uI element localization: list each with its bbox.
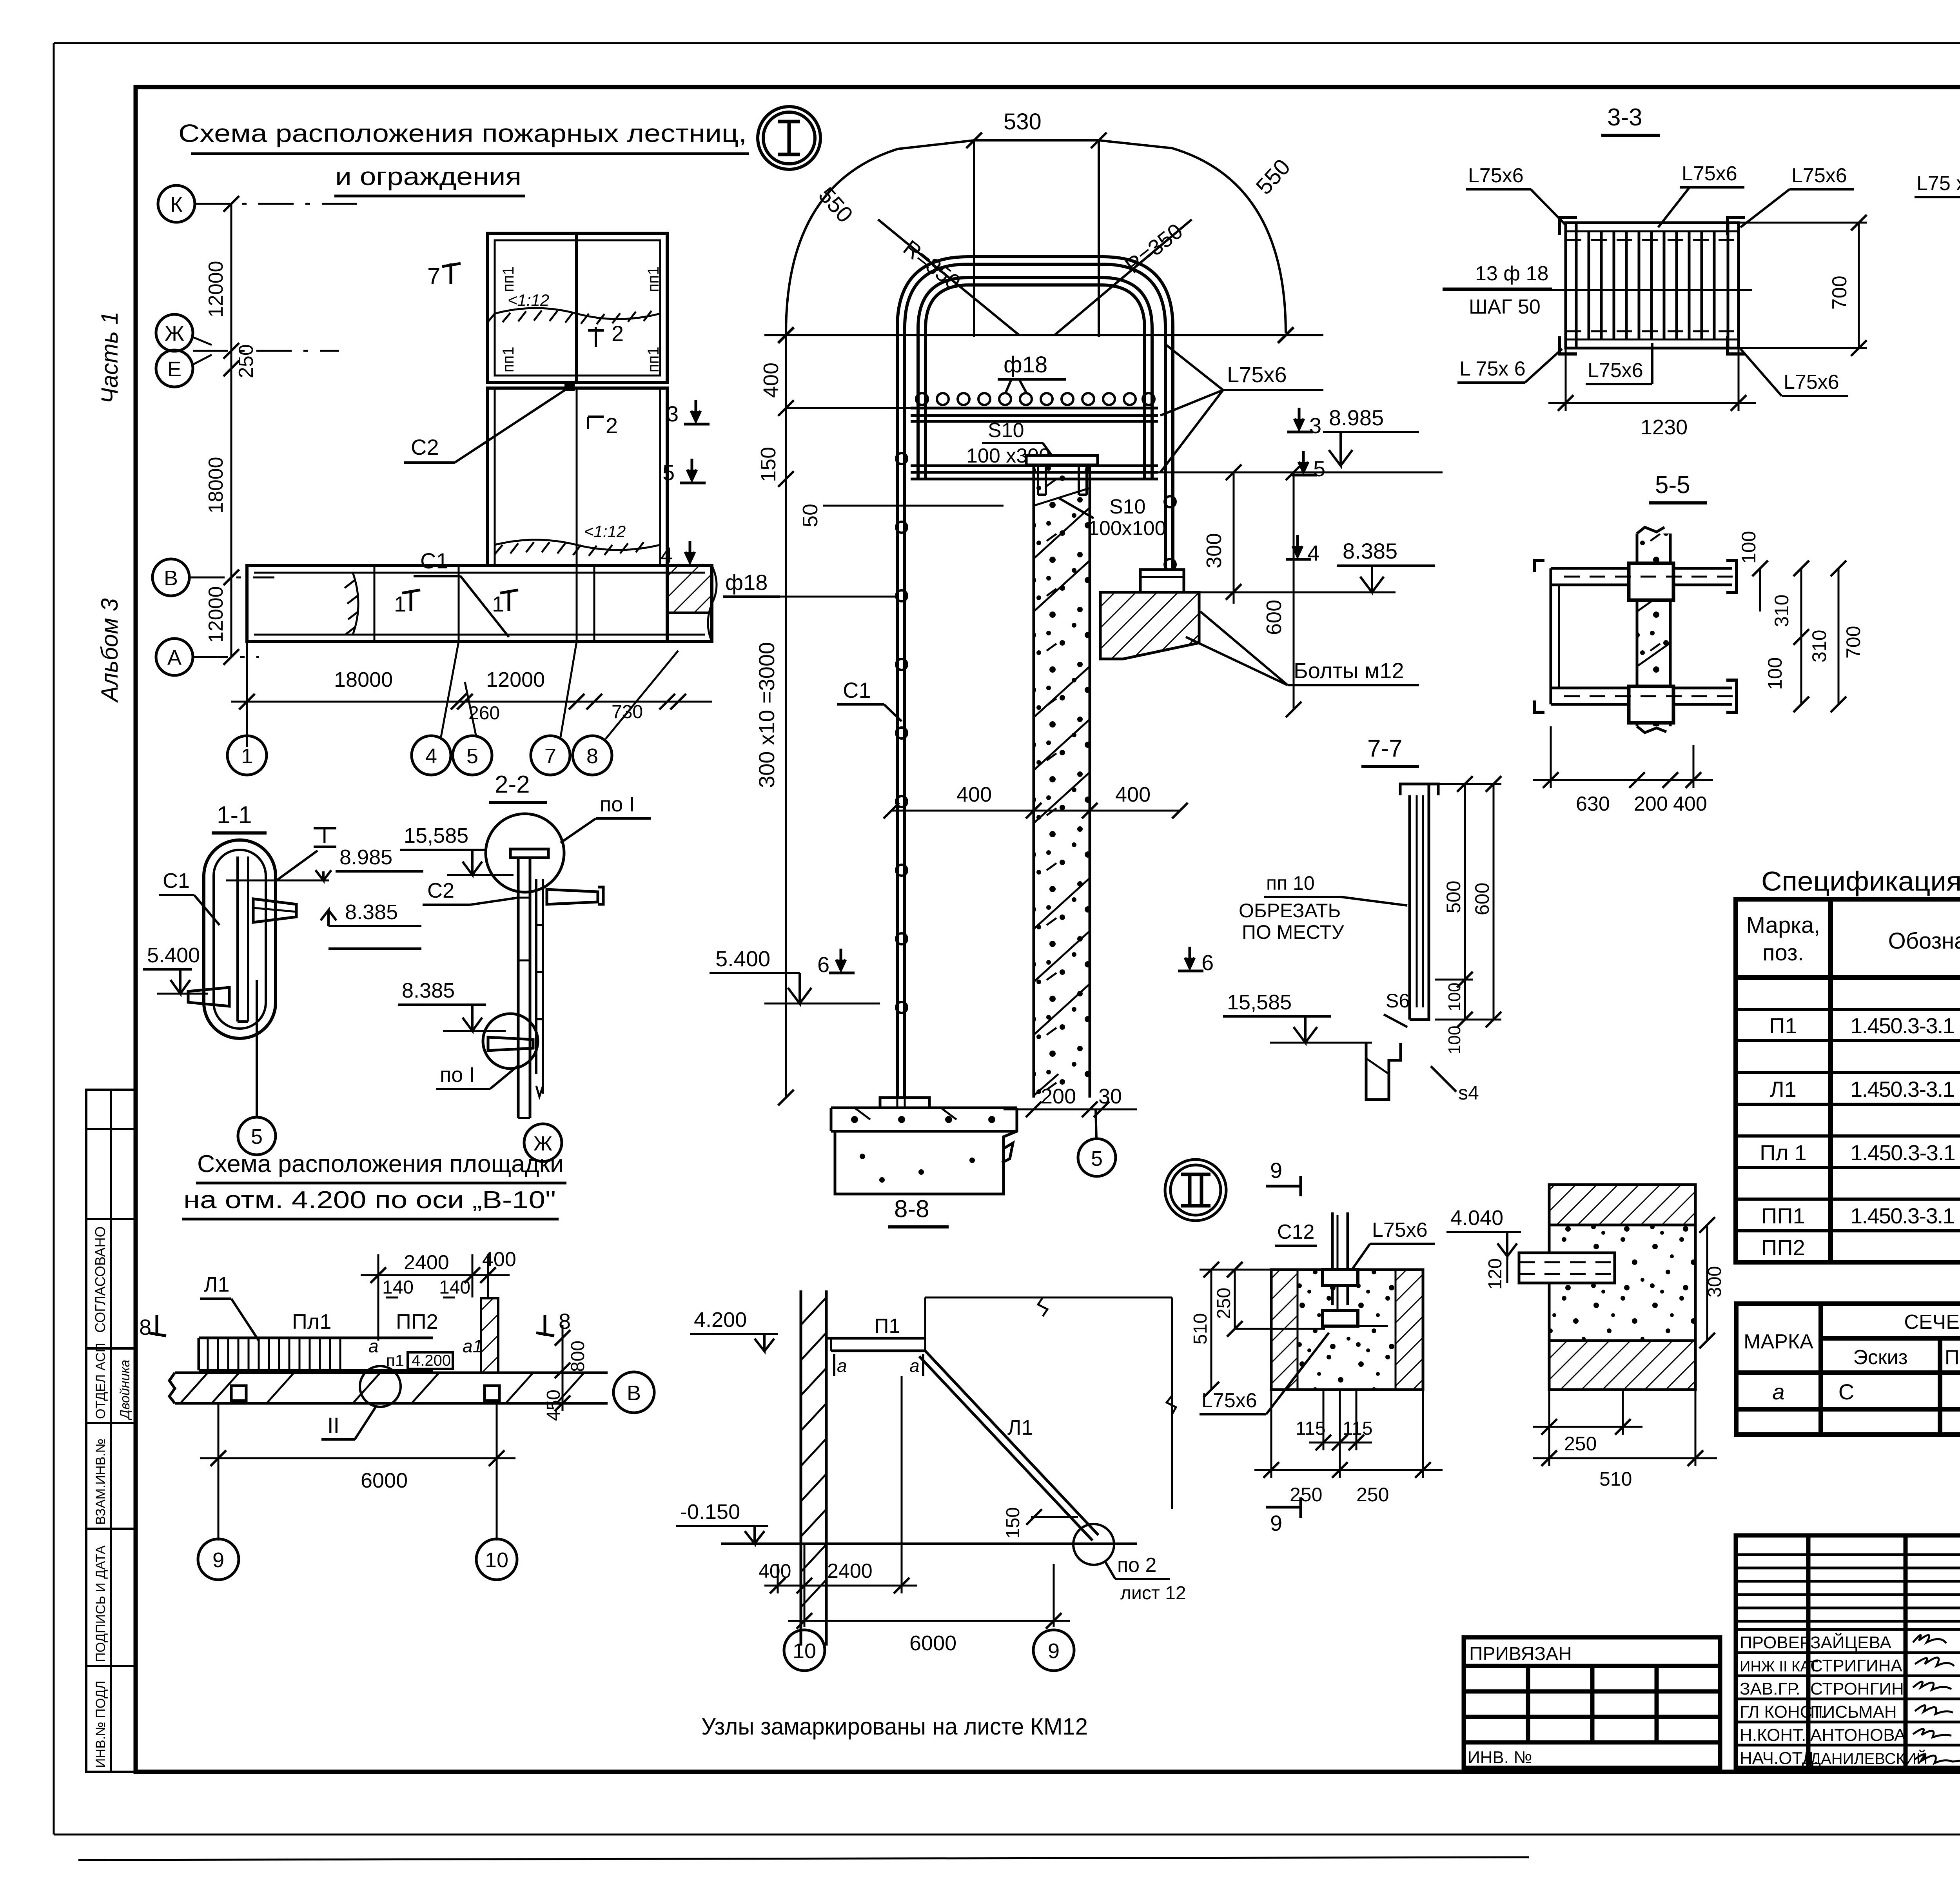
svg-text:8: 8 [139, 1315, 151, 1339]
svg-text:ЗАВ.ГР.: ЗАВ.ГР. [1740, 1679, 1800, 1698]
svg-text:А: А [167, 646, 181, 670]
svg-text:8.385: 8.385 [402, 979, 455, 1002]
svg-text:Марка,: Марка, [1746, 913, 1820, 938]
svg-text:Ж: Ж [165, 322, 184, 345]
wall strip vertical [1637, 533, 1670, 726]
svg-text:600: 600 [1262, 600, 1286, 635]
bracket right [547, 887, 603, 904]
svg-text:-0.150: -0.150 [680, 1500, 740, 1524]
svg-text:150: 150 [757, 447, 780, 482]
pier blocks [1629, 563, 1673, 723]
plan lower strip [488, 388, 667, 566]
svg-text:5: 5 [466, 744, 478, 768]
svg-text:ЗАЙЦЕВА: ЗАЙЦЕВА [1810, 1632, 1891, 1652]
svg-text:5.400: 5.400 [715, 946, 770, 971]
bottom dims 250 510 [1533, 1390, 1717, 1466]
svg-text:Л1: Л1 [1770, 1077, 1797, 1101]
plan upper block [488, 233, 667, 383]
svg-text:ф18: ф18 [725, 570, 768, 595]
svg-text:6000: 6000 [909, 1631, 956, 1655]
svg-text:С2: С2 [411, 435, 439, 459]
svg-text:5-5: 5-5 [1655, 472, 1690, 499]
svg-text:Пл1: Пл1 [292, 1310, 331, 1334]
svg-text:400: 400 [956, 783, 992, 806]
svg-text:1.450.3-3.1 2.1.1.0.0-16: 1.450.3-3.1 2.1.1.0.0-16 [1850, 1013, 1960, 1038]
hoop stadium shape [204, 840, 276, 1038]
svg-text:Схема расположения площадки: Схема расположения площадки [197, 1150, 564, 1178]
small detail circle bottom [483, 1014, 538, 1069]
svg-text:12000: 12000 [205, 261, 227, 318]
svg-text:ОТДЕЛ АСП: ОТДЕЛ АСП [93, 1343, 108, 1419]
plan bottom dims [231, 642, 712, 747]
bracket left lower [188, 987, 229, 1006]
svg-text:8.985: 8.985 [339, 846, 392, 869]
svg-text:S6: S6 [1386, 990, 1410, 1012]
svg-text:Л1: Л1 [204, 1273, 229, 1296]
svg-text:140: 140 [382, 1277, 414, 1298]
svg-text:П1: П1 [874, 1315, 900, 1337]
signatures squiggles [1913, 1635, 1960, 1763]
ladder rail right of column [536, 879, 543, 1097]
svg-text:2400: 2400 [827, 1560, 873, 1582]
svg-text:3: 3 [666, 401, 679, 426]
dims top [361, 1254, 510, 1341]
svg-text:400: 400 [759, 363, 783, 398]
svg-text:а: а [1772, 1379, 1784, 1404]
axis circles 9 10 [198, 1539, 239, 1580]
svg-text:100: 100 [1445, 983, 1464, 1011]
svg-text:13 ф 18: 13 ф 18 [1475, 262, 1548, 285]
second strip [911, 466, 1158, 479]
right vertical dims 300/600 [1226, 465, 1301, 717]
svg-text:2-2: 2-2 [495, 771, 530, 798]
svg-text:800: 800 [568, 1341, 588, 1372]
svg-text:4.040: 4.040 [1450, 1206, 1503, 1230]
svg-text:ПИСЬМАН: ПИСЬМАН [1810, 1702, 1897, 1722]
svg-text:5.400: 5.400 [147, 944, 200, 967]
svg-text:7: 7 [427, 263, 440, 289]
svg-text:310: 310 [1771, 595, 1793, 627]
detail circle II [1165, 1159, 1226, 1221]
svg-text:1.450.3-3.1 4.1.1.1.0-11: 1.450.3-3.1 4.1.1.1.0-11 [1850, 1140, 1960, 1165]
svg-text:600: 600 [1471, 883, 1493, 915]
svg-text:9: 9 [212, 1548, 224, 1572]
plan bottom band [247, 566, 712, 642]
svg-text:250: 250 [235, 344, 258, 378]
svg-text:Болты м12: Болты м12 [1294, 658, 1404, 683]
svg-text:630: 630 [1576, 793, 1610, 815]
svg-text:СТРИГИНА: СТРИГИНА [1810, 1656, 1902, 1675]
svg-text:по I: по I [440, 1063, 475, 1087]
II detail circle on platform [360, 1366, 401, 1407]
svg-text:100х100: 100х100 [1088, 517, 1166, 540]
svg-text:С1: С1 [843, 678, 871, 702]
svg-text:400: 400 [1673, 793, 1707, 815]
svg-text:1.450.3-3.1 5.1.0.1.0-08: 1.450.3-3.1 5.1.0.1.0-08 [1850, 1203, 1960, 1228]
wall bottom dims 200 30 [1004, 1101, 1137, 1117]
svg-text:1.450.3-3.1 1.1.1.0.0-19: 1.450.3-3.1 1.1.1.0.0-19 [1850, 1077, 1960, 1101]
svg-text:и ограждения: и ограждения [335, 162, 521, 191]
detail circle I [758, 107, 820, 169]
column strip [510, 849, 548, 1118]
svg-text:L75х6: L75х6 [1791, 164, 1847, 187]
svg-text:5: 5 [662, 460, 675, 485]
vertical dim line through axes [223, 196, 239, 665]
svg-text:250: 250 [1290, 1484, 1322, 1506]
svg-text:МАРКА: МАРКА [1744, 1330, 1813, 1353]
svg-text:ПО МЕСТУ: ПО МЕСТУ [1242, 921, 1344, 943]
svg-text:115: 115 [1296, 1418, 1326, 1439]
svg-text:S10: S10 [1109, 495, 1146, 518]
plan title [178, 119, 749, 196]
left dims 250 510 [1200, 1262, 1325, 1397]
svg-text:а: а [909, 1355, 920, 1376]
svg-text:пп1: пп1 [500, 266, 517, 292]
svg-text:700: 700 [1842, 626, 1864, 659]
svg-text:ШАГ 50: ШАГ 50 [1469, 296, 1541, 318]
floor band [169, 1373, 608, 1403]
R=350 leaders [878, 220, 1192, 335]
corner angles [1559, 218, 1745, 354]
9-9 block [1271, 1270, 1423, 1390]
svg-text:по I: по I [600, 793, 635, 816]
svg-text:ДАНИЛЕВСКИЙ: ДАНИЛЕВСКИЙ [1810, 1749, 1927, 1767]
big dimension arc 550-530-550 [786, 140, 1286, 335]
bottom wall stub [1366, 1043, 1401, 1100]
svg-text:Спецификация к схеме расположе: Спецификация к схеме расположения площад… [1761, 866, 1960, 896]
svg-text:250: 250 [1564, 1433, 1597, 1455]
svg-text:Узлы замаркированы на листе: Узлы замаркированы на листе КМ12 [701, 1713, 1088, 1740]
spec table rows text [1760, 982, 1960, 1260]
svg-text:9: 9 [1048, 1639, 1060, 1663]
svg-text:Альбом 3: Альбом 3 [96, 598, 123, 703]
svg-text:7-7: 7-7 [1367, 735, 1403, 762]
svg-text:530: 530 [1004, 109, 1042, 134]
axis circle 5 under wall [1096, 1109, 1096, 1139]
svg-text:S10: S10 [988, 419, 1024, 442]
svg-text:Е: Е [167, 357, 181, 381]
svg-text:I: I [321, 823, 328, 847]
svg-text:4: 4 [425, 744, 437, 768]
axis circle 5 below [256, 980, 258, 1117]
svg-text:а1: а1 [463, 1336, 483, 1356]
svg-text:пп 10: пп 10 [1266, 872, 1315, 894]
svg-text:Поз.: Поз. [1945, 1346, 1960, 1369]
bracket right [253, 899, 296, 922]
right vertical dims 800 450 [555, 1325, 570, 1411]
svg-text:С: С [1838, 1379, 1854, 1404]
svg-text:4: 4 [661, 543, 673, 567]
svg-text:250: 250 [1214, 1288, 1234, 1319]
svg-text:Н.КОНТ.: Н.КОНТ. [1740, 1726, 1806, 1745]
svg-text:18000: 18000 [205, 457, 227, 514]
bottom dims 115 115 250 250 [1254, 1390, 1443, 1478]
svg-text:2: 2 [612, 321, 624, 346]
svg-text:Схема расположения пожарных л: Схема расположения пожарных лестниц, [178, 119, 747, 147]
svg-text:по 2: по 2 [1117, 1554, 1156, 1577]
svg-text:15,585: 15,585 [1227, 991, 1292, 1014]
upper horizontal strip [911, 408, 1158, 421]
svg-text:150: 150 [1003, 1507, 1024, 1539]
400 400 dim at mid [884, 803, 1188, 818]
rung hooks on left rail [896, 453, 1176, 1013]
ramp wave in upper block [488, 308, 660, 324]
svg-text:ПРОВЕР: ПРОВЕР [1740, 1633, 1811, 1652]
svg-text:12000: 12000 [205, 586, 227, 643]
svg-text:1: 1 [241, 744, 253, 768]
300x10=3000 dim [785, 514, 787, 1098]
footing [831, 1098, 1017, 1194]
5-5 dims right [1752, 561, 1846, 712]
column cap plate and bolts [1026, 455, 1098, 465]
svg-text:Л1: Л1 [1007, 1416, 1033, 1439]
svg-text:510: 510 [1599, 1468, 1632, 1490]
svg-text:100: 100 [1764, 657, 1786, 690]
section cut marks right side [1307, 413, 1325, 565]
svg-text:300: 300 [1202, 533, 1226, 568]
B axis circle right [613, 1372, 654, 1413]
svg-text:500: 500 [1443, 881, 1465, 913]
axis circle Zh bottom [524, 1124, 562, 1161]
svg-text:9: 9 [1270, 1158, 1282, 1183]
axis circle K [152, 185, 195, 675]
svg-text:250: 250 [1356, 1484, 1389, 1506]
svg-text:3-3: 3-3 [1607, 104, 1642, 131]
6000 dim [200, 1403, 515, 1541]
svg-text:1230: 1230 [1641, 416, 1688, 439]
1230 dim bottom [1548, 348, 1756, 411]
spec table header text [1746, 913, 1960, 965]
svg-text:8-8: 8-8 [894, 1196, 929, 1223]
svg-text:2: 2 [606, 413, 618, 438]
section cut marks 3,5,4 left of elevation [661, 401, 679, 567]
svg-text:100: 100 [1738, 531, 1760, 564]
svg-text:Эскиз: Эскиз [1853, 1346, 1907, 1369]
svg-text:4: 4 [1307, 541, 1319, 565]
ladder grid plan [1566, 223, 1739, 348]
svg-text:L 75х 6: L 75х 6 [1459, 357, 1526, 380]
centerline [1443, 289, 1752, 291]
svg-text:5: 5 [1313, 456, 1325, 481]
signature grid left [1736, 1535, 1960, 1768]
1T labels in band [394, 592, 504, 616]
svg-text:ПП2: ПП2 [1761, 1235, 1805, 1260]
svg-text:СЕЧЕНИЕ: СЕЧЕНИЕ [1904, 1311, 1960, 1334]
svg-text:L75х6: L75х6 [1588, 359, 1643, 382]
svg-text:ИНЖ II КАТ: ИНЖ II КАТ [1740, 1658, 1818, 1675]
svg-text:8.985: 8.985 [1329, 405, 1384, 430]
svg-text:Часть 1: Часть 1 [96, 312, 123, 404]
privyazan box [1464, 1637, 1720, 1768]
svg-text:ф18: ф18 [1004, 352, 1047, 377]
svg-text:II: II [327, 1413, 339, 1437]
svg-text:ВЗАМ.ИНВ.№: ВЗАМ.ИНВ.№ [93, 1439, 108, 1525]
svg-text:50: 50 [799, 504, 822, 527]
svg-text:Пл 1: Пл 1 [1760, 1140, 1807, 1165]
svg-text:510: 510 [1190, 1313, 1211, 1345]
svg-text:18000: 18000 [334, 668, 393, 691]
inner rail [226, 856, 329, 1022]
left dims 400/150/50 [778, 335, 1004, 514]
detail circle [486, 814, 564, 892]
svg-text:100: 100 [1445, 1026, 1464, 1054]
svg-text:НАЧ.ОТД.: НАЧ.ОТД. [1740, 1749, 1818, 1768]
svg-text:8.385: 8.385 [345, 900, 398, 924]
svg-text:400: 400 [1115, 783, 1151, 806]
svg-text:1: 1 [492, 592, 504, 616]
svg-text:В: В [627, 1381, 641, 1405]
svg-text:пп1: пп1 [645, 347, 662, 372]
svg-text:8: 8 [586, 744, 598, 768]
svg-text:30: 30 [1098, 1085, 1122, 1108]
dims right [1435, 776, 1501, 1027]
svg-text:12000: 12000 [486, 668, 545, 691]
svg-text:П1: П1 [1769, 1013, 1797, 1038]
left margin stamp strip [86, 1090, 136, 1772]
embedded channel [1332, 1212, 1348, 1325]
svg-text:7: 7 [544, 744, 556, 768]
svg-text:ПП1: ПП1 [1761, 1203, 1805, 1228]
svg-text:С1: С1 [163, 869, 190, 893]
svg-text:5: 5 [251, 1125, 263, 1149]
svg-text:260: 260 [468, 703, 500, 724]
svg-text:ПП2: ПП2 [396, 1310, 438, 1334]
svg-text:Двойника: Двойника [118, 1360, 132, 1421]
svg-text:400: 400 [759, 1560, 791, 1582]
svg-text:4.200: 4.200 [694, 1308, 747, 1332]
5-5 bottom dims [1533, 726, 1713, 788]
svg-text:450: 450 [543, 1390, 564, 1421]
svg-text:400: 400 [482, 1248, 516, 1271]
bottom masonry band [1549, 1341, 1695, 1390]
svg-text:С12: С12 [1277, 1221, 1314, 1243]
right corbel (platform support) [1100, 570, 1199, 659]
hoop (guard bands) [897, 257, 1173, 1098]
svg-text:200: 200 [1634, 793, 1668, 815]
svg-text:Ведомость: Ведомость [1958, 1271, 1960, 1299]
svg-text:15,585: 15,585 [404, 824, 468, 847]
svg-text:120: 120 [1485, 1258, 1506, 1290]
wall strip [801, 1290, 826, 1646]
platform top [826, 1297, 1176, 1509]
svg-text:700: 700 [1828, 276, 1851, 310]
svg-text:К: К [170, 193, 183, 216]
plan axis circles bottom [227, 736, 612, 775]
L75x6 labels [1459, 162, 1847, 394]
concrete body [1549, 1225, 1695, 1341]
svg-text:L75х6: L75х6 [1682, 162, 1737, 185]
svg-text:1-1: 1-1 [217, 802, 252, 829]
svg-text:В: В [164, 566, 178, 590]
wall column with cap [1034, 464, 1090, 1098]
protruding beam left [1519, 1253, 1615, 1283]
channel post [1400, 784, 1438, 1020]
svg-text:С2: С2 [427, 879, 454, 902]
diagonal ladder L1 [919, 1351, 1098, 1541]
svg-text:9: 9 [1270, 1511, 1282, 1535]
svg-text:ИНВ.№ ПОДЛ: ИНВ.№ ПОДЛ [93, 1680, 108, 1768]
svg-text:ПОДПИСЬ И ДАТА: ПОДПИСЬ И ДАТА [93, 1545, 108, 1662]
svg-text:ПРИВЯЗАН: ПРИВЯЗАН [1469, 1644, 1572, 1664]
svg-text:на отм. 4.200 по оси „В-10": на отм. 4.200 по оси „В-10" [183, 1187, 556, 1214]
svg-text:8.385: 8.385 [1343, 539, 1397, 563]
axis circles 10 9 [784, 1630, 825, 1671]
detail circle po2 [1073, 1524, 1114, 1565]
svg-text:6: 6 [817, 952, 829, 977]
svg-text:С1: С1 [420, 548, 448, 573]
svg-text:6000: 6000 [361, 1469, 408, 1492]
spec table grid [1736, 899, 1960, 1262]
svg-text:а: а [368, 1336, 379, 1356]
rung hole circles row [916, 393, 1154, 405]
svg-text:1: 1 [394, 592, 406, 616]
svg-text:L75х6: L75х6 [1372, 1219, 1428, 1241]
svg-text:ОБРЕЗАТЬ: ОБРЕЗАТЬ [1239, 900, 1341, 922]
svg-text:310: 310 [1808, 630, 1830, 662]
ladder stringers plan [1551, 568, 1732, 704]
svg-text:Обозначение: Обозначение [1888, 928, 1960, 954]
platform band with grating [199, 1338, 433, 1370]
svg-text:<1:12: <1:12 [508, 291, 549, 309]
right hatched column [481, 1298, 498, 1373]
svg-text:3: 3 [1309, 413, 1321, 438]
svg-text:s4: s4 [1458, 1082, 1479, 1104]
svg-text:пп1: пп1 [645, 266, 662, 292]
svg-text:2400: 2400 [404, 1251, 449, 1274]
axis dash-dot lines [189, 204, 368, 657]
svg-text:10: 10 [485, 1548, 508, 1572]
svg-text:пп1: пп1 [500, 347, 517, 372]
PP1 labels rotated in plan [500, 266, 662, 438]
svg-text:а: а [837, 1355, 847, 1376]
svg-text:ИНВ. №: ИНВ. № [1468, 1748, 1532, 1767]
svg-text:L75 х 6: L75 х 6 [1916, 172, 1960, 195]
angle plates in block [1323, 1270, 1358, 1285]
svg-text:<1:12: <1:12 [584, 522, 626, 541]
svg-text:10: 10 [793, 1639, 816, 1663]
svg-text:200: 200 [1041, 1085, 1076, 1108]
svg-text:4.200: 4.200 [412, 1352, 451, 1369]
svg-text:L75х6: L75х6 [1468, 164, 1524, 187]
svg-text:L75х6: L75х6 [1784, 371, 1839, 394]
svg-text:115: 115 [1343, 1418, 1373, 1439]
svg-text:поз.: поз. [1762, 940, 1804, 965]
svg-text:300 х10 =3000: 300 х10 =3000 [754, 642, 779, 788]
svg-text:СОГЛАСОВАНО: СОГЛАСОВАНО [92, 1226, 108, 1333]
svg-text:730: 730 [612, 702, 643, 722]
svg-text:5: 5 [1091, 1147, 1103, 1170]
svg-text:АНТОНОВА: АНТОНОВА [1810, 1726, 1906, 1745]
svg-text:L75х6: L75х6 [1227, 362, 1287, 387]
svg-text:СТРОНГИН: СТРОНГИН [1810, 1679, 1904, 1698]
masonry top band [1549, 1185, 1695, 1225]
svg-text:140: 140 [439, 1277, 470, 1298]
dashed stringer lines [1566, 240, 1739, 331]
end plates right [1534, 561, 1737, 712]
700 dim right [1739, 215, 1867, 356]
svg-text:лист 12: лист 12 [1120, 1583, 1186, 1604]
baseline under arc [764, 327, 1323, 343]
bottom dims [764, 1376, 1070, 1629]
